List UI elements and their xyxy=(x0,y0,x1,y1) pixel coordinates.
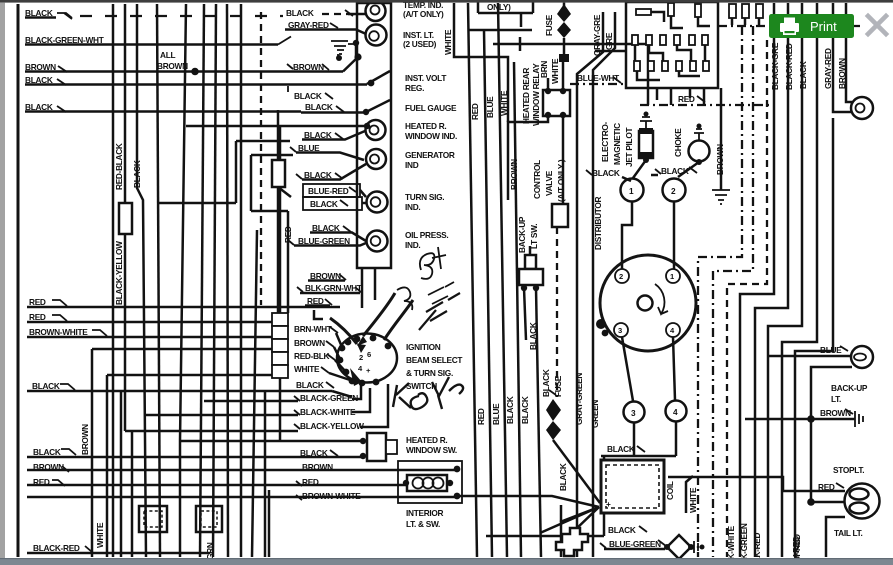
wire RED-BLACK with resistor xyxy=(124,4,127,431)
svg-text:RED-BLACK: RED-BLACK xyxy=(114,143,124,190)
svg-text:RED: RED xyxy=(302,477,319,487)
svg-text:RED: RED xyxy=(476,408,486,425)
interior lt and sw xyxy=(398,461,462,503)
svg-text:WHITE: WHITE xyxy=(443,29,453,55)
block drop wires xyxy=(657,88,704,105)
svg-text:GRAY-GREEN: GRAY-GREEN xyxy=(574,373,584,425)
connector BLACK boxed xyxy=(303,197,362,210)
lamp TURN SIG IND xyxy=(367,192,388,213)
wire xyxy=(157,4,160,557)
wire RED vertical mid xyxy=(468,3,477,557)
lamp INST LT xyxy=(366,25,387,46)
wire BLACK mid-bottom xyxy=(560,505,563,557)
node ALL BROWN junction xyxy=(191,68,199,76)
svg-text:BLACK: BLACK xyxy=(558,463,568,491)
svg-text:LT.: LT. xyxy=(831,394,841,404)
wire fuse to coil xyxy=(553,440,600,503)
L mark xyxy=(314,310,323,319)
svg-text:REG.: REG. xyxy=(405,83,424,93)
svg-text:WHITE: WHITE xyxy=(294,364,320,374)
staircase wires xyxy=(698,26,742,557)
wire BLUE vertical mid xyxy=(484,30,492,557)
wire WHITE stack row xyxy=(107,374,272,377)
top mid bracket ONLY xyxy=(478,1,533,13)
right bus to backup xyxy=(782,3,817,557)
svg-text:BLACK: BLACK xyxy=(520,396,530,424)
svg-text:RED-BLK: RED-BLK xyxy=(294,351,330,361)
svg-text:FUSE: FUSE xyxy=(544,14,554,36)
wire relay to control area xyxy=(508,116,548,200)
svg-text:BROWN: BROWN xyxy=(837,58,847,89)
svg-text:BLACK: BLACK xyxy=(608,525,636,535)
svg-text:(A/T ONLY ): (A/T ONLY ) xyxy=(556,159,566,202)
left gray gutter xyxy=(0,3,5,565)
svg-text:3: 3 xyxy=(631,408,636,418)
lamp TEMP IND xyxy=(366,1,386,21)
connector stack ignition xyxy=(272,313,288,378)
block internal wires xyxy=(635,12,710,80)
svg-text:BLACK: BLACK xyxy=(296,380,324,390)
connector dashed box 2 xyxy=(196,506,222,532)
svg-text:GRE: GRE xyxy=(604,32,614,50)
svg-text:BLACK-WHITE: BLACK-WHITE xyxy=(300,407,356,417)
svg-text:GENERATOR: GENERATOR xyxy=(405,150,455,160)
svg-text:BLACK: BLACK xyxy=(505,396,515,424)
wire GREEN xyxy=(593,12,615,557)
distributor pin 3 xyxy=(614,323,628,337)
wire xyxy=(200,4,204,557)
svg-text:CONTROL: CONTROL xyxy=(532,160,542,199)
svg-text:RED: RED xyxy=(283,226,293,243)
svg-text:TAIL LT.: TAIL LT. xyxy=(834,528,862,538)
ground instrument cluster xyxy=(331,41,356,57)
svg-text:VALVE: VALVE xyxy=(544,170,554,196)
svg-text:BLACK: BLACK xyxy=(132,160,142,188)
svg-text:HEATED R.: HEATED R. xyxy=(405,121,446,131)
svg-text:BLUE: BLUE xyxy=(485,96,495,118)
wire WHITE vertical xyxy=(106,375,109,557)
svg-text:2: 2 xyxy=(619,272,623,281)
svg-text:WINDOW RELAY: WINDOW RELAY xyxy=(531,63,541,126)
scribble B+ xyxy=(420,247,446,279)
lamp HEATED R WINDOW IND xyxy=(366,120,386,140)
svg-text:BROWN: BROWN xyxy=(157,61,188,71)
connector blob xyxy=(559,54,569,62)
svg-text:1: 1 xyxy=(629,186,634,196)
ignition coil box xyxy=(601,460,664,513)
svg-text:2: 2 xyxy=(671,186,676,196)
svg-text:BRN-WHT: BRN-WHT xyxy=(294,324,332,334)
stop tail lamp xyxy=(845,484,880,519)
svg-text:BROWN: BROWN xyxy=(302,462,333,472)
svg-text:4: 4 xyxy=(673,407,678,417)
wire mid y203 xyxy=(157,202,236,205)
right bus BLACK xyxy=(768,3,802,557)
wire BLACK vertical xyxy=(137,4,146,557)
wire horizontals top mid xyxy=(468,30,648,51)
right bus BROWN to lamp xyxy=(846,3,852,102)
svg-text:+: + xyxy=(606,499,611,509)
bottom scrollbar xyxy=(0,558,893,565)
svg-text:(2 USED): (2 USED) xyxy=(403,39,437,49)
terminal circle 1 xyxy=(621,179,644,202)
svg-text:BROWN: BROWN xyxy=(80,424,90,455)
svg-text:2: 2 xyxy=(359,353,363,362)
svg-text:BLACK: BLACK xyxy=(592,168,620,178)
svg-text:BLACK: BLACK xyxy=(541,369,551,397)
svg-text:Y-RED: Y-RED xyxy=(791,536,801,560)
wire stop light feed xyxy=(811,501,845,504)
wire xyxy=(180,4,186,557)
right bus GRAY-RED to lamp xyxy=(833,3,851,112)
svg-text:IGNITION: IGNITION xyxy=(406,342,441,352)
ignition beam select and turn sig switch xyxy=(337,334,397,383)
svg-text:BLACK: BLACK xyxy=(798,61,808,89)
svg-text:WINDOW IND.: WINDOW IND. xyxy=(405,131,457,141)
svg-text:6: 6 xyxy=(367,350,371,359)
connector dashed box 1 xyxy=(139,506,167,532)
svg-text:BLACK-GRE: BLACK-GRE xyxy=(770,42,780,90)
svg-text:JET PILOT: JET PILOT xyxy=(624,128,634,167)
svg-text:WHITE: WHITE xyxy=(95,522,105,548)
svg-text:IND: IND xyxy=(405,160,419,170)
svg-text:BLUE-RED: BLUE-RED xyxy=(308,186,349,196)
svg-text:ELECTRO-: ELECTRO- xyxy=(600,121,610,162)
svg-text:BLUE-WHT: BLUE-WHT xyxy=(577,73,619,83)
ground choke area xyxy=(720,186,723,190)
back-up lamp xyxy=(851,346,873,368)
svg-text:BLACK-RED: BLACK-RED xyxy=(784,43,794,90)
inductor interior lamp xyxy=(413,478,424,489)
svg-text:3: 3 xyxy=(618,326,622,335)
wire pin4 to circle 4 xyxy=(673,337,675,400)
svg-text:BLACK: BLACK xyxy=(607,444,635,454)
svg-text:ALL: ALL xyxy=(160,50,175,60)
ground tail xyxy=(855,411,863,427)
fuse block top right xyxy=(626,2,718,88)
svg-text:BACK-UP: BACK-UP xyxy=(517,216,527,253)
print button xyxy=(769,14,854,38)
wire xyxy=(240,4,243,557)
wire BLACK vertical mid xyxy=(514,62,521,557)
terminal circle 4 xyxy=(666,401,687,422)
svg-text:BLACK: BLACK xyxy=(528,322,538,350)
svg-text:WHITE: WHITE xyxy=(499,90,509,116)
svg-text:BLACK-YELLOW: BLACK-YELLOW xyxy=(300,421,364,431)
lamp top right xyxy=(851,97,873,119)
svg-text:BLACK: BLACK xyxy=(33,447,61,457)
svg-text:BROWN: BROWN xyxy=(293,62,324,72)
wire xyxy=(279,126,282,441)
node cluster ground tap xyxy=(354,53,361,60)
wire WHITE top xyxy=(454,3,508,122)
svg-text:INST. VOLT: INST. VOLT xyxy=(405,73,446,83)
svg-text:& TURN SIG.: & TURN SIG. xyxy=(406,368,453,378)
svg-text:BROWN: BROWN xyxy=(715,144,725,175)
svg-text:BLUE: BLUE xyxy=(820,345,842,355)
scribble KEY xyxy=(393,377,463,409)
lamp OIL PRESS IND xyxy=(367,231,388,252)
svg-text:RED: RED xyxy=(470,103,480,120)
svg-text:OIL PRESS.: OIL PRESS. xyxy=(405,230,448,240)
distributor pin 2 xyxy=(615,269,629,283)
right bus BLACK-GRE xyxy=(740,3,774,557)
scribble strokes xyxy=(397,282,454,310)
wire to heated sw xyxy=(180,440,363,443)
wire GRAY-GREEN xyxy=(577,12,603,557)
svg-text:INTERIOR: INTERIOR xyxy=(406,508,444,518)
svg-text:(A/T ONLY): (A/T ONLY) xyxy=(403,9,444,19)
instrument cluster box xyxy=(357,3,391,268)
resistor ballast xyxy=(119,203,132,234)
svg-text:RED: RED xyxy=(29,312,46,322)
svg-text:BLACK-YELLOW: BLACK-YELLOW xyxy=(114,241,124,305)
distributor pin 1 xyxy=(666,269,680,283)
wire xyxy=(112,4,115,557)
close X xyxy=(868,16,886,34)
svg-text:BACK-UP: BACK-UP xyxy=(831,383,868,393)
terminal circle 3 xyxy=(624,402,645,423)
wire xyxy=(227,4,228,557)
distributor pin 4 xyxy=(666,323,680,337)
svg-text:MAGNETIC: MAGNETIC xyxy=(612,123,622,165)
svg-text:BLACK: BLACK xyxy=(661,166,689,176)
svg-text:RED: RED xyxy=(678,94,695,104)
svg-text:IND.: IND. xyxy=(405,240,420,250)
lamp GENERATOR IND xyxy=(366,149,386,169)
svg-text:GREEN: GREEN xyxy=(590,400,600,428)
svg-text:RED: RED xyxy=(29,297,46,307)
svg-text:IND.: IND. xyxy=(405,202,420,212)
svg-text:BEAM SELECT: BEAM SELECT xyxy=(406,355,462,365)
svg-text:HEATED R.: HEATED R. xyxy=(406,435,447,445)
svg-text:FUEL GAUGE: FUEL GAUGE xyxy=(405,103,457,113)
svg-text:HEATED REAR: HEATED REAR xyxy=(521,68,531,124)
left page border xyxy=(17,4,20,557)
svg-text:BROWN: BROWN xyxy=(294,338,325,348)
wire coil fan xyxy=(457,496,599,533)
svg-text:WHITE: WHITE xyxy=(550,58,560,84)
svg-text:BLACK: BLACK xyxy=(32,381,60,391)
svg-text:DISTRIBUTOR: DISTRIBUTOR xyxy=(593,196,603,250)
svg-text:GRAY-RED: GRAY-RED xyxy=(823,48,833,89)
castellated connector xyxy=(556,528,588,556)
svg-text:LT. & SW.: LT. & SW. xyxy=(406,519,440,529)
wire pin3 to circle 3 xyxy=(622,337,633,401)
wire to heated lamp xyxy=(186,125,367,128)
wire WHITE/BLACK vertical mid xyxy=(498,3,507,557)
svg-text:GRAY-GRE: GRAY-GRE xyxy=(592,14,602,56)
svg-text:BLACK: BLACK xyxy=(310,199,338,209)
svg-text:BLK-GRN-WHT: BLK-GRN-WHT xyxy=(305,283,362,293)
svg-text:BLACK: BLACK xyxy=(294,91,322,101)
svg-text:TURN SIG.: TURN SIG. xyxy=(405,192,444,202)
wire dash-dot top right xyxy=(718,25,860,27)
svg-text:Print: Print xyxy=(810,19,837,34)
svg-text:GRN: GRN xyxy=(205,542,215,560)
resistor second xyxy=(272,160,285,187)
svg-text:LT SW.: LT SW. xyxy=(529,224,539,249)
svg-text:BLUE: BLUE xyxy=(491,403,501,425)
switch wires from cluster xyxy=(362,268,375,308)
wire circles to coil xyxy=(601,422,676,460)
wire xyxy=(264,391,267,557)
svg-text:BROWN: BROWN xyxy=(509,159,519,190)
connector BLUE-RED boxed xyxy=(303,184,360,197)
svg-text:BLACK: BLACK xyxy=(305,102,333,112)
wire xyxy=(213,4,216,557)
condenser diamond xyxy=(667,535,691,559)
top right pins xyxy=(729,4,763,18)
wire WHITE coil xyxy=(686,476,693,513)
terminal circle 2 xyxy=(663,179,686,202)
wire circle1 to distributor xyxy=(622,201,632,269)
wire circle2 to distributor xyxy=(673,201,676,269)
svg-text:STOPLT.: STOPLT. xyxy=(833,465,864,475)
svg-text:WINDOW SW.: WINDOW SW. xyxy=(406,445,457,455)
svg-text:BROWN-WHITE: BROWN-WHITE xyxy=(29,327,88,337)
right bus BLACK-RED xyxy=(755,3,788,557)
wire dashed vertical xyxy=(260,12,262,305)
hand arrows into switch xyxy=(330,293,413,344)
wire BROWN stack row xyxy=(92,348,272,351)
wire BROWN to ground xyxy=(720,88,723,186)
svg-text:SWITCH: SWITCH xyxy=(406,381,437,391)
wire BROWN vertical xyxy=(91,349,94,557)
svg-text:BLACK-RED: BLACK-RED xyxy=(33,543,80,553)
svg-text:COIL: COIL xyxy=(665,481,675,500)
svg-text:BLACK: BLACK xyxy=(286,8,314,18)
svg-text:WHITE: WHITE xyxy=(688,487,698,513)
svg-text:BLACK-GREEN: BLACK-GREEN xyxy=(300,393,358,403)
svg-text:CHOKE: CHOKE xyxy=(673,128,683,157)
browser top bar xyxy=(0,0,893,3)
svg-text:BLUE-GREEN: BLUE-GREEN xyxy=(609,539,661,549)
